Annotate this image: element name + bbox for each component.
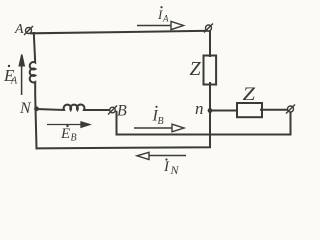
svg-text:n: n: [195, 99, 204, 118]
svg-text:B: B: [158, 116, 164, 127]
svg-text:B: B: [117, 103, 127, 120]
svg-text:A: A: [10, 76, 18, 87]
svg-text:E: E: [60, 126, 70, 142]
svg-text:Z: Z: [243, 84, 256, 105]
svg-text:A: A: [162, 14, 169, 24]
svg-text:B: B: [71, 133, 77, 144]
svg-text:Z: Z: [190, 58, 202, 80]
svg-text:I: I: [163, 159, 170, 175]
svg-text:A: A: [14, 22, 24, 37]
svg-text:N: N: [19, 100, 32, 117]
svg-text:N: N: [170, 163, 180, 177]
